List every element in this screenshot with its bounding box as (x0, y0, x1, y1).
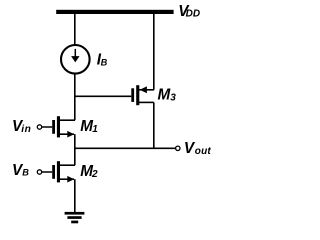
label VB (12, 162, 29, 179)
VDD rail (56, 10, 173, 14)
wire M3 source to rail (153, 13, 155, 90)
transistor M3 (131, 85, 154, 105)
svg-text:DD: DD (186, 9, 200, 20)
wire output (75, 147, 175, 149)
label VDD (178, 3, 200, 20)
svg-text:1: 1 (92, 124, 98, 135)
wire output node to M2 drain (74, 148, 76, 165)
svg-text:2: 2 (91, 169, 98, 180)
current source IB (61, 45, 90, 74)
ground (65, 212, 85, 223)
svg-text:3: 3 (170, 92, 176, 103)
terminal VB (37, 170, 41, 174)
wire node A to M3 gate (74, 95, 131, 97)
terminal Vin (37, 125, 41, 129)
transistor M1 (42, 116, 75, 137)
label M2 (80, 163, 98, 180)
wire rail to current source (74, 13, 76, 46)
label Vin (12, 118, 31, 135)
label M3 (158, 86, 177, 103)
svg-text:B: B (22, 168, 29, 178)
transistor M2 (42, 161, 75, 182)
label M1 (80, 118, 98, 135)
label IB (97, 51, 108, 68)
wire M2 source to ground (74, 179, 76, 212)
svg-text:out: out (195, 146, 212, 157)
svg-text:B: B (101, 57, 108, 67)
svg-text:in: in (21, 124, 31, 135)
wire M1 source to output node (74, 134, 76, 149)
wire current source to M1 drain node (74, 73, 76, 120)
label Vout (184, 140, 212, 157)
terminal Vout (176, 146, 180, 150)
wire M3 drain to output (153, 102, 155, 149)
